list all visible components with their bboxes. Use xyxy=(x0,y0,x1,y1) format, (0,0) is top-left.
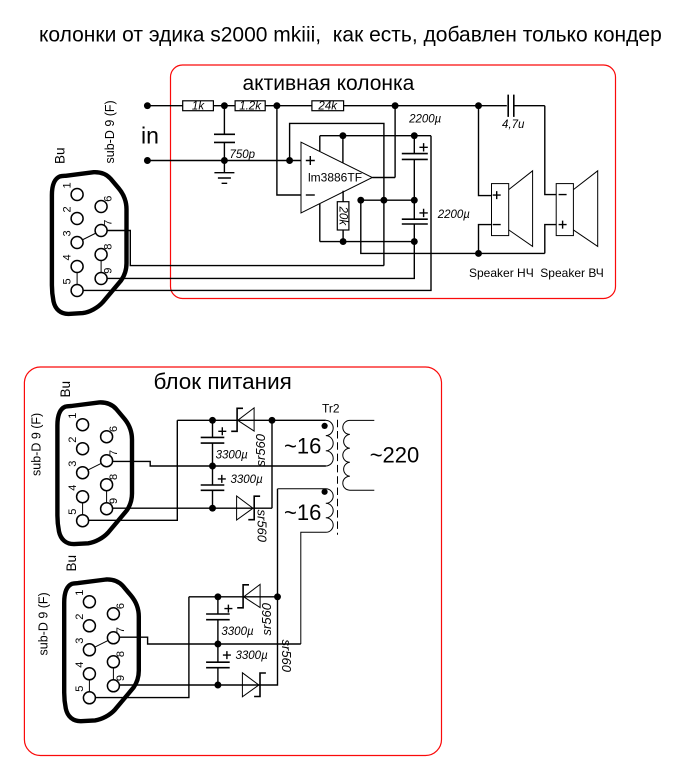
node 20k bottom xyxy=(340,238,347,245)
svg-text:2200µ: 2200µ xyxy=(408,114,442,126)
plus sign at op-amp input xyxy=(306,156,315,165)
wire tweeter positive lead xyxy=(545,225,556,254)
polarity dot winding 1 xyxy=(322,423,328,429)
wire lower input rail xyxy=(147,160,301,162)
svg-text:2200µ: 2200µ xyxy=(437,209,471,221)
svg-text:sr560: sr560 xyxy=(253,433,268,466)
svg-text:in: in xyxy=(141,123,159,149)
node cap2 bottom p2 xyxy=(214,682,221,689)
svg-text:20k: 20k xyxy=(337,206,349,227)
svg-text:3300µ: 3300µ xyxy=(231,474,264,486)
wire 750p branch vertical xyxy=(223,106,225,173)
wire power1 pin7 to mid rail xyxy=(106,461,326,466)
capacitor C 2200u top xyxy=(413,136,415,201)
svg-text:Bu: Bu xyxy=(64,555,79,572)
svg-text:3300µ: 3300µ xyxy=(236,650,269,662)
svg-text:sr560: sr560 xyxy=(259,602,274,635)
node speaker plus xyxy=(475,102,482,109)
node cap top xyxy=(411,132,418,139)
wire woofer negative lead xyxy=(479,225,492,254)
wire op-amp output xyxy=(372,106,395,178)
wire audio pin7 to ground rail xyxy=(101,231,384,266)
transformer primary winding 1 ~16 xyxy=(150,420,333,466)
svg-text:24k: 24k xyxy=(317,101,338,113)
wire 4,7u to tweeter xyxy=(545,106,556,195)
node cap2 bottom xyxy=(209,505,216,512)
diode D sr560 (power1 top) xyxy=(231,408,254,431)
speaker ВЧ (tweeter) xyxy=(556,184,573,236)
polarity dot winding 2 xyxy=(322,489,328,495)
resistor R 24k xyxy=(312,101,344,111)
wire power2 pin9 bottom rail xyxy=(112,597,277,685)
wire woofer positive lead xyxy=(479,106,492,196)
diode D sr560 (power1 bottom) xyxy=(237,496,261,520)
node rectified out xyxy=(269,417,276,424)
svg-text:блок питания: блок питания xyxy=(154,369,292,394)
svg-text:sr560: sr560 xyxy=(279,640,294,673)
capacitor C 4,7u xyxy=(508,95,514,117)
svg-text:sub-D 9 (F): sub-D 9 (F) xyxy=(36,592,50,655)
svg-text:sub-D 9 (F): sub-D 9 (F) xyxy=(103,100,117,163)
svg-text:4,7u: 4,7u xyxy=(502,119,525,131)
red frame: power supply block xyxy=(24,367,441,756)
power DB9 connector 1 xyxy=(57,402,132,544)
svg-text:1k: 1k xyxy=(192,101,205,113)
node mid rail xyxy=(209,463,216,470)
wire non-inverting feedback to ground rail xyxy=(290,123,384,265)
resistor R 1k xyxy=(183,101,214,111)
svg-text:Bu: Bu xyxy=(58,381,73,398)
svg-text:Speaker ВЧ: Speaker ВЧ xyxy=(540,266,604,280)
wire power1 pin5 riser xyxy=(82,420,177,520)
node mid rail p2 xyxy=(214,641,221,648)
node cap bottom xyxy=(411,238,418,245)
svg-text:3300µ: 3300µ xyxy=(221,626,254,638)
diode D sr560 (power2 bottom) xyxy=(242,673,266,697)
node input top xyxy=(144,102,151,109)
wire bottom supply rail xyxy=(320,241,415,243)
capacitor C 3300u lower (power1) xyxy=(212,466,214,508)
node output to rail xyxy=(392,102,399,109)
wire audio pin5 to V+ rail xyxy=(77,136,431,291)
node speaker return xyxy=(475,250,482,257)
svg-text:sub-D 9 (F): sub-D 9 (F) xyxy=(29,413,43,476)
capacitor C 3300u upper (power2) xyxy=(217,597,219,644)
transformer core dashed xyxy=(337,420,339,535)
node cap1 top p2 xyxy=(214,593,221,600)
resistor R 1.2k xyxy=(235,101,265,111)
svg-text:Tr2: Tr2 xyxy=(322,402,340,416)
svg-text:Speaker НЧ: Speaker НЧ xyxy=(469,266,534,280)
capacitor 750p plates xyxy=(214,134,235,142)
node V+ rail xyxy=(339,132,346,139)
svg-text:~16: ~16 xyxy=(284,500,321,525)
wire power2 pin7 to mid rail xyxy=(112,637,301,644)
diode D sr560 (power2 top) xyxy=(237,584,260,607)
node cap mid xyxy=(411,197,418,204)
audio DB9 connector Bu xyxy=(52,172,127,314)
speaker НЧ (woofer) xyxy=(492,184,509,236)
svg-text:колонки от эдика s2000 mkiii,: колонки от эдика s2000 mkiii, как есть, … xyxy=(39,24,662,47)
wire 20k to bottom rail xyxy=(342,230,344,242)
red frame: active speaker block xyxy=(171,65,616,299)
minus sign at op-amp input xyxy=(306,194,315,196)
wire winding2 top to power2 rail xyxy=(277,489,279,597)
svg-text:sr560: sr560 xyxy=(254,510,269,543)
svg-text:~16: ~16 xyxy=(284,434,321,459)
node ground rail mid xyxy=(380,197,387,204)
svg-text:Bu: Bu xyxy=(53,147,68,164)
wire op-amp bottom pins xyxy=(320,191,343,242)
wire power1 pin9 bottom rail xyxy=(106,420,272,508)
op-amp U1 lm3886TF xyxy=(301,142,372,213)
node after 1.2k xyxy=(273,102,280,109)
wire inverting input from node after 1.2k xyxy=(277,106,301,195)
capacitor C 3300u upper (power1) xyxy=(212,420,214,466)
node plus input xyxy=(286,157,293,164)
wire power1 top rail xyxy=(177,419,325,421)
svg-text:~220: ~220 xyxy=(370,443,420,468)
svg-text:lm3886TF: lm3886TF xyxy=(308,171,362,185)
svg-text:3300µ: 3300µ xyxy=(216,449,249,461)
transformer secondary ~220 xyxy=(343,420,375,490)
wire ground rail to speaker return xyxy=(361,200,545,253)
wire power2 top rail xyxy=(189,596,278,598)
svg-text:750p: 750p xyxy=(230,149,256,161)
resistor R 20k xyxy=(337,202,349,230)
capacitor C 3300u lower (power2) xyxy=(217,644,219,685)
node rectified out p2 xyxy=(274,593,281,600)
wire audio pin9 to bottom rail xyxy=(101,242,414,279)
svg-text:1.2k: 1.2k xyxy=(239,101,262,113)
wire op-amp V+ rail xyxy=(320,136,431,163)
node 750p top xyxy=(221,102,228,109)
svg-text:активная колонка: активная колонка xyxy=(243,72,415,95)
wire mid ground rail xyxy=(361,199,415,201)
ground symbol xyxy=(214,173,234,184)
wire top rail input to resistors and caps xyxy=(147,105,544,107)
node input bottom xyxy=(144,157,151,164)
transformer primary winding 2 ~16 xyxy=(278,489,334,644)
node ground rail left xyxy=(357,197,364,204)
node cap1 top xyxy=(209,417,216,424)
capacitor C 2200u bottom xyxy=(413,200,415,241)
power DB9 connector 2 xyxy=(64,579,139,721)
node 750p bottom xyxy=(221,157,228,164)
wire power2 pin5 riser xyxy=(88,597,189,698)
